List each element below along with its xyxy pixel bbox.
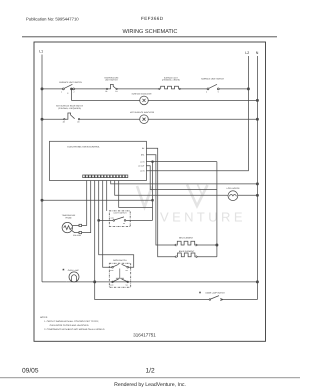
svg-text:Rendered by LeadVenture, Inc.: Rendered by LeadVenture, Inc. [114,382,186,388]
svg-text:LIMIT SWITCH: LIMIT SWITCH [105,79,118,82]
wire strip pin to probe bottom [82,181,91,233]
svg-text:DOOR LAMP SWITCH: DOOR LAMP SWITCH [206,291,226,294]
WATERMARK [137,185,208,208]
node N [256,51,259,55]
wire oven lamp row [42,281,67,283]
junction row1 drop [71,88,73,90]
motor M1 lock motor [227,187,240,201]
svg-text:NO: NO [123,223,126,225]
svg-text:FEF366D: FEF366D [141,16,164,21]
wire row2 to N [148,99,258,101]
junction row3-N [256,118,258,120]
wire strip pin to light switch and door switch loop [99,181,134,268]
wire row1 segment [117,88,158,90]
junction row2-N [256,99,258,101]
svg-text:L2: L2 [245,51,249,55]
svg-text:LOCK MOTOR: LOCK MOTOR [227,187,240,190]
wire L1 rail [41,55,43,282]
svg-text:COM: COM [110,269,114,272]
wire pin L2 OUT to element common [146,166,217,190]
junction row1-L2 [247,88,249,90]
svg-text:2A: 2A [105,90,108,93]
wire bake element to riser [198,256,217,258]
svg-text:(2 SHOWN, 4 RQTS): (2 SHOWN, 4 RQTS) [162,79,180,82]
svg-text:LIGHT SWITCH: LIGHT SWITCH [114,212,128,215]
switch surface unit switch (left) [59,81,83,95]
connector strip P1 on EOC bottom [83,175,128,178]
indicator lamp hot surface indicator [130,111,155,123]
svg-text:Publication No: 5995447710: Publication No: 5995447710 [26,17,79,22]
border frame [34,42,266,341]
wire strip pin to oven lamp junction and door lamp run [95,181,209,300]
junction motor-N [256,194,258,196]
junction row1-L1 [41,88,43,90]
svg-text:2B: 2B [63,121,66,124]
wire broil element to riser [198,244,217,246]
wire lamp row to N [67,281,258,283]
svg-text:NO: NO [126,269,129,272]
wire row3 L1 to switch [42,118,64,120]
wire L1-IN tap down to L1 feed [152,162,154,221]
svg-text:OVEN DOOR CLOSED AND UNLOCKED.: OVEN DOOR CLOSED AND UNLOCKED. [50,324,90,327]
svg-text:WIRING SCHEMATIC: WIRING SCHEMATIC [123,29,178,35]
heating element surface unit (2 SHOWN, 4 RQTS) [158,76,181,89]
svg-text:HOT SURFACE INDICATOR: HOT SURFACE INDICATOR [130,111,155,114]
svg-text:1A: 1A [115,90,118,93]
wire lock motor to N [238,194,258,196]
svg-text:NO: NO [126,284,129,287]
junction light switch feed [98,219,100,221]
svg-text:DOOR SWITCH: DOOR SWITCH [113,259,127,262]
svg-text:BRL ELEMENT: BRL ELEMENT [179,237,194,240]
svg-text:VENTURE: VENTURE [160,210,246,225]
wire strip pin to N (upper) [111,181,258,184]
wire element common riser [216,162,218,257]
lamp oven lamp [62,269,79,282]
svg-text:09/05: 09/05 [22,367,39,374]
svg-text:N: N [256,51,259,55]
svg-text:SURFACE INDICATOR: SURFACE INDICATOR [132,93,152,96]
svg-text:1. CIRCUIT SHOWN WITH ALL CON: 1. CIRCUIT SHOWN WITH ALL CONTROLS SET T… [44,320,99,323]
svg-text:BRL: BRL [141,154,145,157]
svg-text:L2 OUT: L2 OUT [138,165,145,168]
svg-text:PRB COM: PRB COM [73,234,81,237]
junction upper-N [256,183,258,185]
switch hot surface rear switch [56,105,84,124]
notes text [40,316,105,331]
wire strip pin to door switch com top [103,181,112,268]
junction L1IN tap [152,161,154,163]
wire door lamp switch to N [221,299,258,301]
wire strip pin to lock motor [115,181,228,196]
svg-text:(2 SHOWN, 4 REQUIRED): (2 SHOWN, 4 REQUIRED) [58,107,81,110]
junction L1 feed at tap [152,199,154,201]
svg-text:1/2: 1/2 [146,367,155,374]
broil element BRL ELEMENT [174,237,197,246]
switch door lamp switch [199,291,225,300]
wire L2 rail into EOC pin L2 IN [146,56,248,171]
svg-text:SURFACE UNIT SWITCH: SURFACE UNIT SWITCH [201,77,225,80]
switch light switch [99,211,153,227]
node L2 [245,51,249,55]
svg-text:2. COMPONENTS WITH ✱ DO NOT: 2. COMPONENTS WITH ✱ DO NOT APPEAR ON AL… [44,328,105,331]
svg-text:BK: BK [142,147,145,150]
wire pin BK to bake element left [146,148,174,257]
svg-text:NOTES:: NOTES: [40,316,48,319]
svg-text:316417751: 316417751 [133,333,156,338]
junction lamp-N [256,281,258,283]
svg-text:L2 IN: L2 IN [140,170,145,173]
svg-text:PROBE: PROBE [65,217,72,220]
svg-text:1B: 1B [77,121,80,124]
wire L1 feed horizontal [42,199,153,201]
wire drop row1 to row2 [70,89,72,101]
op-amp U1 electronic oven control box [50,141,147,180]
wire row1 segment [181,88,207,90]
wire strip pin into light switch box [106,181,108,211]
svg-text:1: 1 [61,90,62,93]
node L1 [39,50,43,54]
wire row3 to N [148,118,258,120]
wire row3 segment [80,118,140,120]
svg-text:2: 2 [74,90,75,93]
svg-text:5: 5 [218,90,219,93]
switch surface unit switch (right) [201,77,225,93]
wire strip pin to probe top [82,181,87,226]
switch door switch (double pole) [109,259,130,287]
bake element BAKE ELEMENT [175,250,198,258]
svg-text:L1: L1 [39,50,43,54]
junction broil-riser [216,244,218,246]
wire row1 segment [75,88,107,90]
wire row1 to L2 [219,88,248,90]
temperature probe [62,214,82,237]
svg-text:4: 4 [206,90,207,93]
indicator lamp surface indicator [132,93,152,105]
svg-text:SURFACE UNIT SWITCH: SURFACE UNIT SWITCH [59,81,83,84]
svg-text:COM: COM [110,284,114,287]
wire row2 segment [71,99,140,101]
switch temperature limit switch [104,76,119,93]
junction lamp wire [94,281,96,283]
svg-text:ELECTRONIC OVEN CONTROL: ELECTRONIC OVEN CONTROL [68,146,101,149]
svg-text:L1 IN: L1 IN [140,160,145,163]
junction L1 feed at rail [41,199,43,201]
svg-text:P: P [67,92,69,95]
wire pin BRL to broil element left [146,155,174,245]
wire row1 L1 to switch [42,88,63,90]
wire pin L1 IN across to element common riser [146,161,217,163]
wire N rail [256,56,258,300]
wire strip pin to light switch output [119,181,153,208]
junction row3-L1 [41,118,43,120]
svg-text:BAKE ELEMENT: BAKE ELEMENT [179,250,195,253]
